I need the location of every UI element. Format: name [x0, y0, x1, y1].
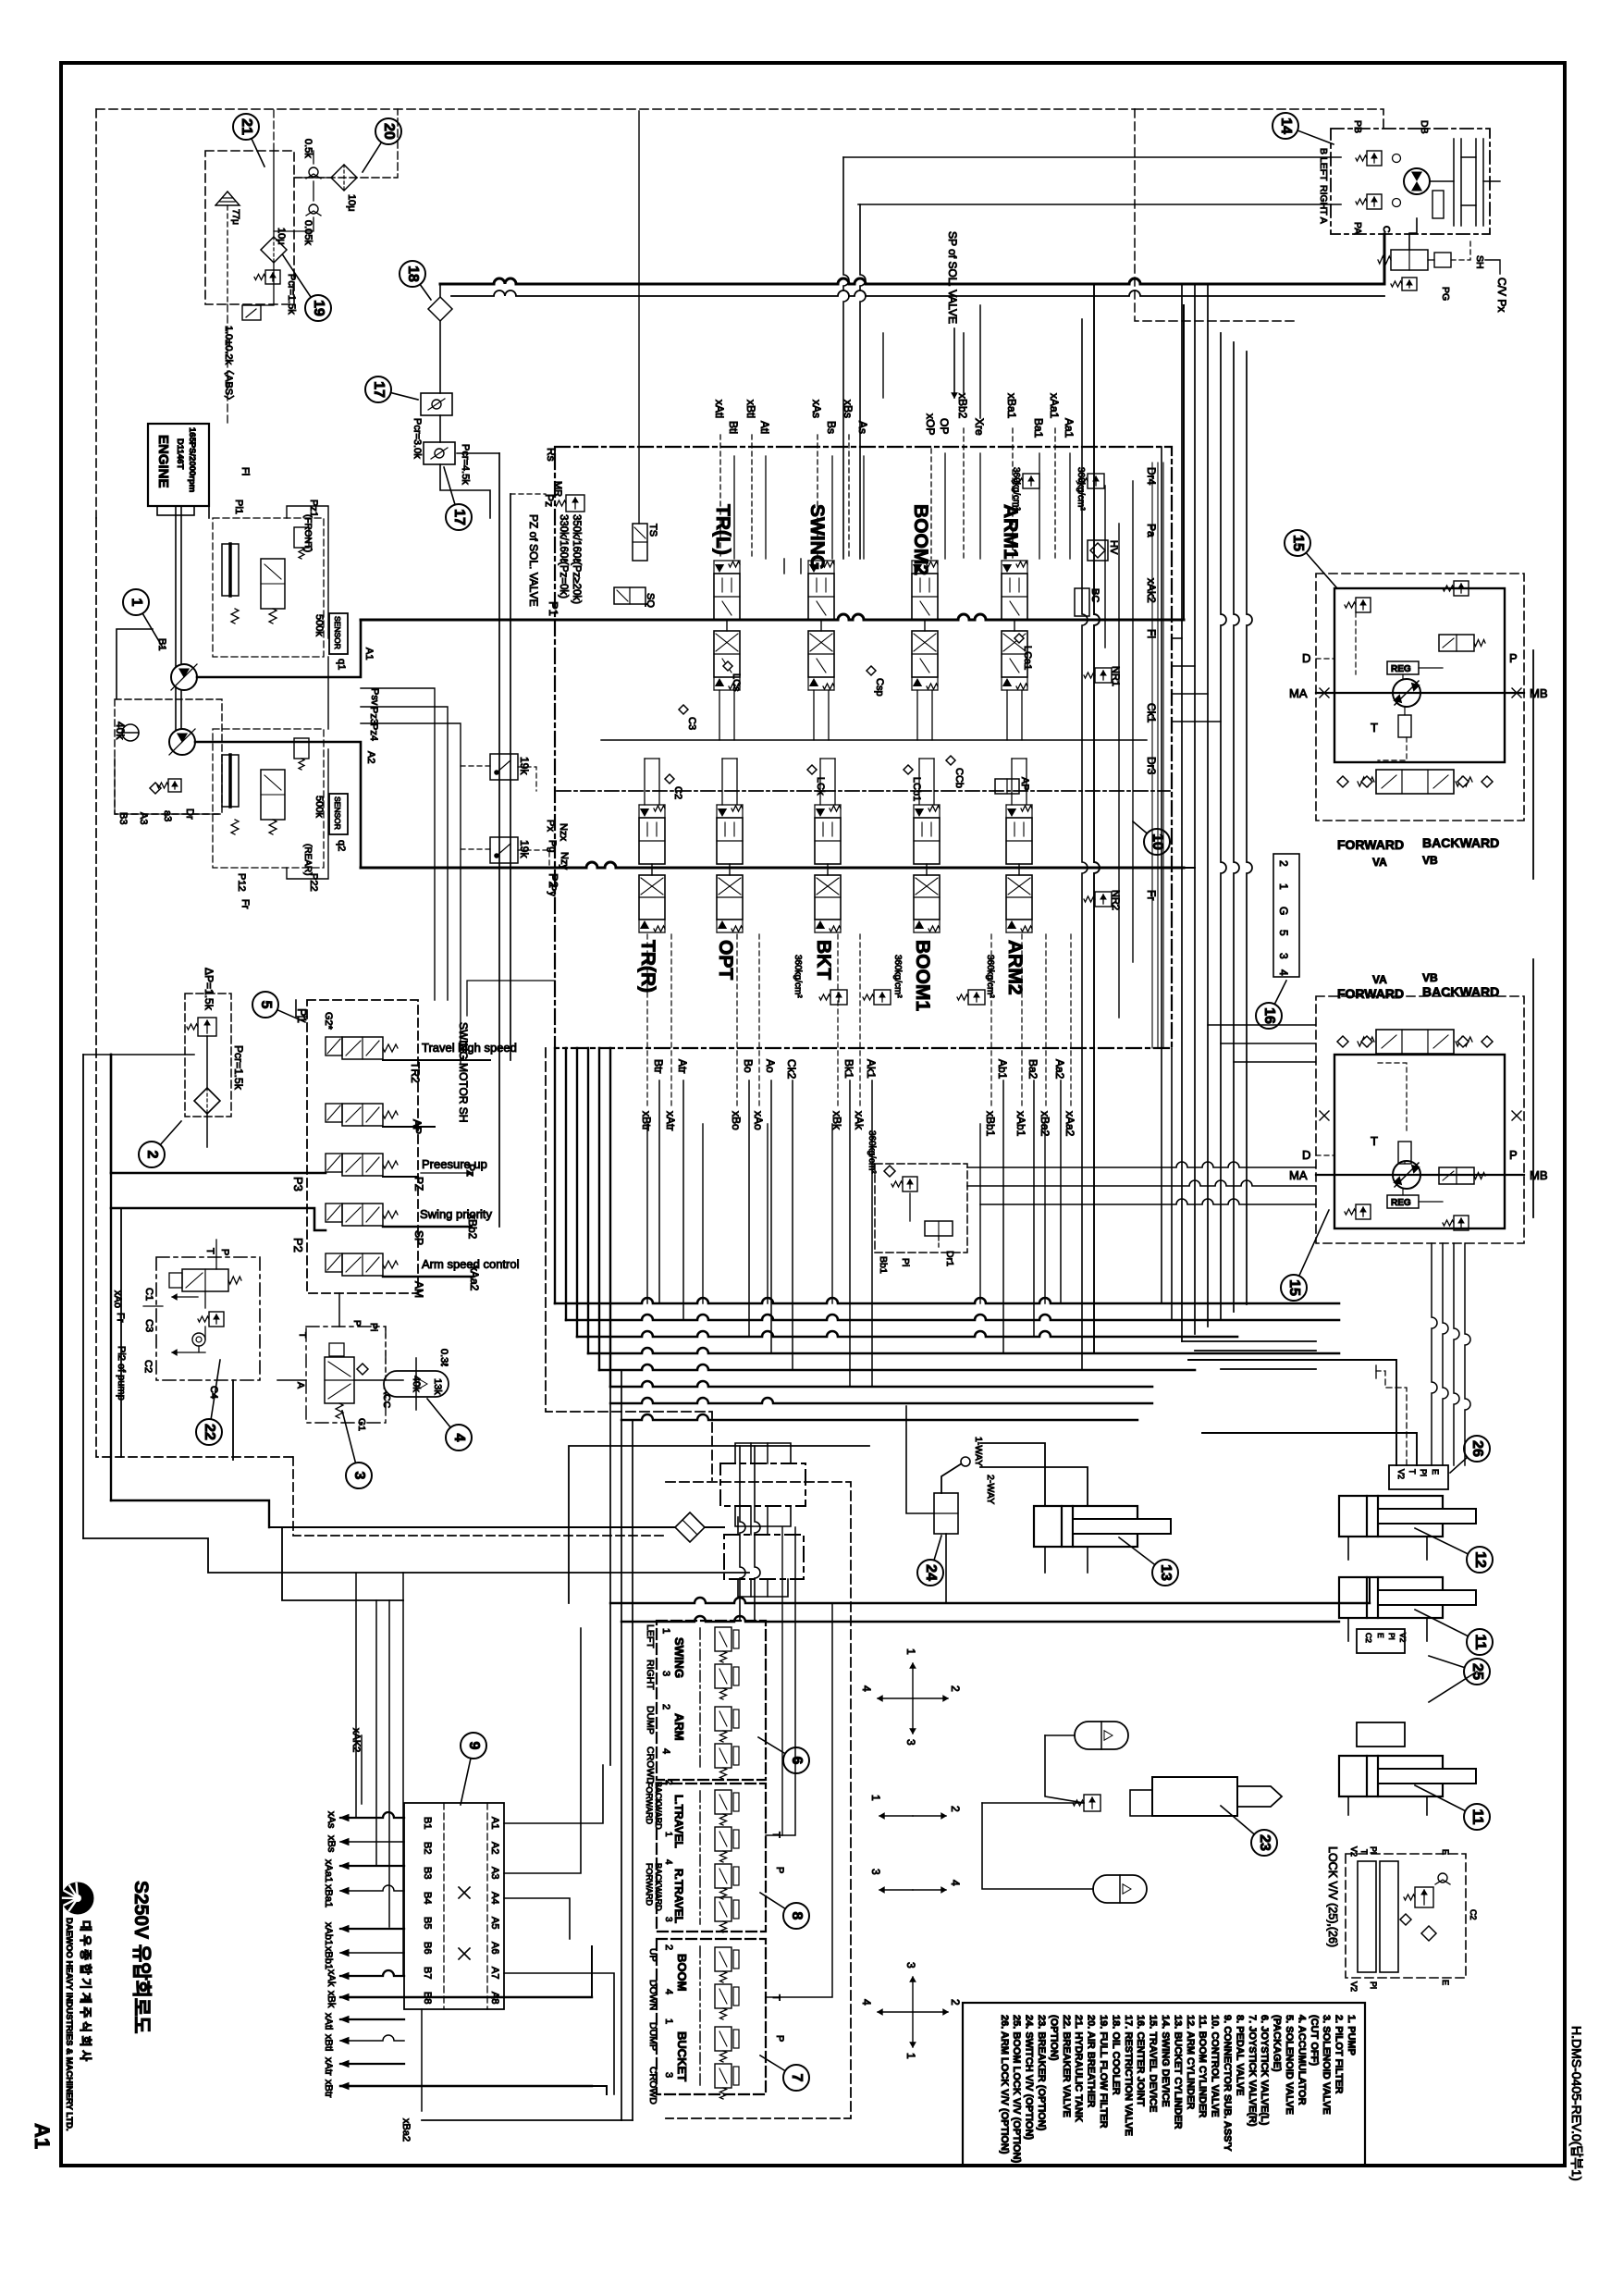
hydraulic tank 21 dashed box	[205, 151, 294, 304]
svg-text:Ak1: Ak1	[865, 1059, 878, 1079]
pilot filter diamond	[194, 1088, 220, 1114]
pressure switch 19k b	[490, 837, 518, 863]
svg-text:21. HYDRAULIC TANK: 21. HYDRAULIC TANK	[1073, 2015, 1084, 2122]
accumulator 4	[384, 1371, 449, 1397]
travel brake line	[1398, 1142, 1411, 1164]
reducing valve element	[715, 1664, 739, 1699]
svg-text:4: 4	[663, 1859, 673, 1865]
svg-text:xAa2: xAa2	[468, 1265, 481, 1291]
svg-text:xOP: xOP	[924, 414, 937, 435]
svg-text:B6: B6	[422, 1942, 433, 1954]
svg-text:360kg/cm²: 360kg/cm²	[892, 955, 903, 998]
svg-text:UP: UP	[647, 1948, 658, 1962]
tank breather symbol	[215, 191, 240, 205]
svg-text:500k: 500k	[314, 796, 325, 818]
svg-text:P: P	[1509, 1148, 1518, 1162]
svg-text:xAtr: xAtr	[323, 2057, 334, 2076]
svg-text:V2: V2	[1398, 1633, 1408, 1643]
svg-text:RIGHT: RIGHT	[645, 1660, 656, 1690]
svg-text:360kg/cm²: 360kg/cm²	[793, 955, 803, 998]
svg-text:360kg/cm²: 360kg/cm²	[985, 955, 995, 998]
valve AP	[995, 779, 1019, 794]
lever 7	[699, 1946, 701, 2087]
travel motor MA/MB x ticks	[1320, 688, 1329, 697]
svg-text:xAa1: xAa1	[1048, 393, 1061, 419]
svg-text:DOWN: DOWN	[647, 1980, 658, 2010]
swing device 14 box	[1331, 129, 1490, 234]
svg-text:MR: MR	[552, 481, 563, 497]
swing relief b	[1367, 194, 1382, 209]
orientation compass	[912, 1663, 914, 1698]
svg-text:E: E	[1441, 1849, 1450, 1855]
wire bundle top horizontals to swing	[843, 157, 849, 559]
svg-text:T: T	[1371, 1134, 1378, 1148]
lock vv internals	[1415, 1887, 1433, 1907]
svg-text:10. CONTROL VALVE: 10. CONTROL VALVE	[1210, 2015, 1221, 2117]
svg-text:C2: C2	[1364, 1633, 1373, 1643]
svg-text:16: 16	[1261, 1007, 1277, 1024]
breaker valve 22 solenoid valve	[182, 1269, 228, 1291]
air breather 20	[331, 165, 357, 191]
svg-text:15: 15	[1290, 535, 1306, 551]
svg-text:11: 11	[1472, 1635, 1488, 1650]
reducing valve element	[715, 1744, 739, 1779]
svg-text:LEFT: LEFT	[645, 1624, 656, 1648]
svg-text:19k: 19k	[518, 840, 531, 858]
boom lock vv 25b	[1357, 1722, 1405, 1747]
svg-text:6. JOYSTICK VALVE(L): 6. JOYSTICK VALVE(L)	[1259, 2015, 1270, 2126]
reducing valve element	[715, 2064, 739, 2099]
svg-text:B1: B1	[422, 1817, 433, 1829]
svg-text:Bo: Bo	[742, 1059, 755, 1073]
svg-text:G: G	[1277, 907, 1290, 915]
pz dashed links to 19k switches	[461, 765, 490, 767]
svg-text:xAs: xAs	[810, 400, 823, 418]
svg-text:Pz4: Pz4	[368, 723, 379, 741]
breaker check	[192, 1333, 205, 1346]
svg-text:(CUT OFF): (CUT OFF)	[1309, 2015, 1320, 2066]
svg-text:1: 1	[904, 1648, 917, 1655]
svg-text:2: 2	[663, 1780, 673, 1785]
pilot pump gauge 40k	[122, 724, 139, 741]
circled 8	[760, 1893, 796, 1916]
center joint pass lines	[750, 1443, 752, 1463]
switch valve 24	[934, 1493, 958, 1534]
cylinder 11a	[1339, 1577, 1476, 1618]
misc connecting lines top-left	[294, 109, 398, 178]
svg-text:CROWD: CROWD	[647, 2067, 658, 2105]
svg-text:MA: MA	[1289, 686, 1308, 700]
svg-text:20: 20	[381, 123, 397, 140]
svg-text:B5: B5	[422, 1917, 433, 1929]
svg-text:Py: Py	[547, 884, 558, 896]
svg-text:REG: REG	[1391, 1198, 1411, 1208]
svg-text:Fr: Fr	[1145, 890, 1158, 900]
bottom relief 360kg boom1	[874, 990, 891, 1005]
right-of-valve internal verticals	[1104, 486, 1106, 648]
compass 2-way a	[879, 1815, 913, 1817]
svg-text:Pz3: Pz3	[368, 707, 379, 724]
svg-text:xBo: xBo	[730, 1111, 743, 1130]
svg-text:Ba2: Ba2	[1027, 1059, 1039, 1080]
xAK2 wire	[361, 1735, 363, 1804]
solenoid block 5 dashed box	[307, 1000, 418, 1293]
svg-text:H.DMS-0405-REV.0(답부1): H.DMS-0405-REV.0(답부1)	[1569, 2026, 1584, 2181]
spool valve BKT	[815, 805, 841, 932]
svg-text:26: 26	[1469, 1440, 1485, 1457]
travel T dashed path	[1378, 737, 1407, 760]
svg-text:Ao: Ao	[764, 1059, 777, 1073]
svg-text:3: 3	[904, 1962, 917, 1969]
svg-text:xBb1: xBb1	[984, 1111, 997, 1137]
svg-text:P22: P22	[308, 873, 319, 892]
svg-text:VB: VB	[1422, 854, 1438, 867]
reducing valve element	[715, 1864, 739, 1899]
svg-text:19. FULL FLOW FILTER: 19. FULL FLOW FILTER	[1098, 2015, 1109, 2128]
svg-text:Ck2: Ck2	[785, 1059, 798, 1080]
svg-text:Ba1: Ba1	[1032, 418, 1045, 438]
check HV	[1088, 540, 1108, 561]
svg-text:FORWARD: FORWARD	[1337, 986, 1404, 1001]
svg-text:CCb: CCb	[953, 768, 965, 788]
svg-text:Atr: Atr	[676, 1059, 689, 1073]
svg-text:P: P	[774, 1867, 785, 1873]
breaker relief	[209, 1312, 224, 1327]
svg-text:C4: C4	[208, 1386, 219, 1399]
spool feed links bottom row	[644, 759, 646, 805]
svg-text:26. ARM LOCK V/V (OPTION): 26. ARM LOCK V/V (OPTION)	[999, 2015, 1010, 2154]
pedal valve 7 boom/bucket	[657, 1939, 766, 2094]
control valve 10 boundary	[555, 447, 1172, 1048]
pressure switch 19k a	[490, 754, 518, 780]
valve bottom port drops	[658, 1080, 660, 1303]
svg-text:Pi1: Pi1	[233, 500, 244, 514]
joystick valve 6 swing/arm	[657, 1621, 766, 1780]
svg-text:VA: VA	[1372, 856, 1387, 869]
spool drop links top row	[719, 690, 720, 740]
svg-text:ARM: ARM	[672, 1713, 686, 1741]
wire bundle right of valve vertical	[1181, 284, 1183, 1341]
riser bundle to travel devices	[1182, 1340, 1316, 1342]
svg-text:P: P	[1509, 651, 1518, 665]
svg-text:D: D	[1302, 651, 1310, 665]
lock vv block 25/26	[1346, 1854, 1466, 1978]
travel MA MB line	[1316, 692, 1524, 694]
swing gearbox	[1430, 139, 1500, 226]
svg-text:A3: A3	[489, 1867, 500, 1879]
svg-text:xAb1: xAb1	[1014, 1111, 1027, 1137]
lines valve to right bundle	[1172, 637, 1182, 639]
travel counterbalance	[1376, 770, 1454, 794]
wire P1 supply line	[361, 614, 1184, 620]
svg-text:Fr: Fr	[240, 899, 251, 909]
svg-text:1-WAY: 1-WAY	[973, 1437, 984, 1466]
svg-text:xAa1: xAa1	[323, 1859, 334, 1882]
travel 2sol valve	[1439, 1167, 1474, 1184]
solenoid valve section	[326, 1037, 398, 1059]
svg-text:MA: MA	[1289, 1168, 1308, 1182]
svg-text:CROWD: CROWD	[645, 1747, 656, 1784]
svg-text:SP of SOL. VALVE: SP of SOL. VALVE	[946, 231, 959, 324]
svg-text:ENGINE: ENGINE	[155, 435, 171, 488]
svg-text:SWING MOTOR SH: SWING MOTOR SH	[457, 1022, 470, 1122]
connector A-side out wires	[504, 1765, 603, 1823]
solenoid valve section	[326, 1104, 398, 1126]
check 0.05k	[309, 204, 318, 214]
svg-text:15. TRAVEL DEVICE: 15. TRAVEL DEVICE	[1148, 2015, 1159, 2112]
valve internal tank rail	[601, 739, 1147, 741]
svg-text:B2: B2	[422, 1842, 433, 1854]
svg-text:4: 4	[660, 1748, 671, 1754]
connector cross links	[459, 1887, 470, 1898]
svg-text:E: E	[1376, 1633, 1385, 1638]
left area long lines	[82, 1055, 84, 1538]
svg-text:xBk: xBk	[326, 1991, 337, 2008]
svg-text:4: 4	[1277, 969, 1290, 976]
solenoid valve section	[326, 1253, 398, 1276]
reducing valve element	[715, 1827, 739, 1862]
lever 6	[699, 1628, 701, 1767]
bottom relief 360kg bkt	[830, 990, 847, 1005]
svg-text:xBa2: xBa2	[400, 2118, 412, 2142]
svg-text:Pi: Pi	[1369, 1981, 1378, 1989]
circled 5	[265, 1005, 305, 1022]
svg-text:E: E	[1431, 1469, 1440, 1475]
svg-text:As: As	[856, 421, 869, 434]
svg-text:xAk: xAk	[326, 1969, 337, 1987]
spool valve TR(R)	[639, 805, 665, 932]
svg-text:HV: HV	[1108, 540, 1119, 555]
svg-text:A6: A6	[489, 1942, 500, 1954]
svg-text:2-WAY: 2-WAY	[985, 1475, 996, 1504]
circled 16	[1269, 981, 1286, 1016]
svg-text:C3: C3	[686, 717, 697, 730]
svg-text:Pi: Pi	[1387, 1633, 1396, 1640]
svg-text:19: 19	[311, 300, 326, 316]
swing lines	[843, 156, 1341, 158]
spool valve ARM1	[1002, 561, 1027, 690]
svg-text:7: 7	[789, 2074, 805, 2082]
svg-text:V2: V2	[1349, 1981, 1359, 1992]
spool valve TR(L)	[714, 561, 740, 690]
svg-text:10μ: 10μ	[276, 228, 287, 245]
svg-text:Pcr=1.5k: Pcr=1.5k	[286, 274, 297, 315]
svg-text:PB: PB	[1352, 120, 1363, 133]
svg-text:Btr: Btr	[652, 1059, 665, 1073]
svg-text:360kg/cm²: 360kg/cm²	[867, 1130, 877, 1174]
svg-text:12: 12	[1472, 1551, 1488, 1568]
switch vv 26	[1389, 1465, 1448, 1489]
svg-text:Bk1: Bk1	[842, 1059, 855, 1079]
svg-text:22. BREAKER VALVE: 22. BREAKER VALVE	[1061, 2015, 1072, 2117]
joystick supply riser	[781, 1527, 783, 1835]
svg-text:a3: a3	[162, 810, 173, 821]
cylinder 12	[1339, 1496, 1476, 1537]
svg-text:xBb2: xBb2	[956, 393, 969, 419]
svg-text:9: 9	[466, 1742, 482, 1750]
svg-text:Pi: Pi	[1369, 1846, 1378, 1854]
swing relief pg	[1402, 278, 1417, 290]
svg-text:Pcr=4.5k: Pcr=4.5k	[460, 444, 471, 485]
svg-text:SH: SH	[1474, 255, 1485, 269]
svg-text:xBb1: xBb1	[323, 1946, 334, 1969]
svg-text:350k/160ℓ(Pz≥20k): 350k/160ℓ(Pz≥20k)	[571, 514, 582, 604]
dashed boundary around joystick pilot area	[666, 1482, 851, 2118]
svg-text:ΔP=1.5k: ΔP=1.5k	[203, 968, 215, 1011]
svg-text:14. SWING DEVICE: 14. SWING DEVICE	[1160, 2015, 1171, 2107]
svg-text:Pcr=3.0k: Pcr=3.0k	[412, 418, 423, 459]
svg-text:DUMP: DUMP	[647, 2022, 658, 2051]
svg-text:12. ARM CYLINDER: 12. ARM CYLINDER	[1185, 2015, 1196, 2109]
center joint upper	[720, 1463, 805, 1506]
svg-text:PA: PA	[1352, 222, 1363, 234]
fan wire arrowheads	[340, 1815, 349, 1821]
joystick P/T feed lines	[766, 1527, 795, 1835]
solenoid valve section	[326, 1154, 398, 1176]
branch to fan verticals	[282, 1527, 403, 1600]
bottom bundle from valve to cylinders	[555, 1298, 1339, 1303]
svg-text:24. SWITCH V/V (OPTION): 24. SWITCH V/V (OPTION)	[1024, 2015, 1035, 2140]
svg-text:C2: C2	[1469, 1909, 1478, 1920]
parts list box	[963, 2003, 1365, 2166]
compass 2-way b	[879, 1889, 913, 1891]
svg-text:1. PUMP: 1. PUMP	[1346, 2015, 1357, 2055]
svg-text:C2: C2	[142, 1360, 154, 1373]
svg-text:3. SOLENOID VALVE: 3. SOLENOID VALVE	[1321, 2015, 1332, 2115]
svg-text:C2: C2	[672, 786, 683, 799]
cutoff valve body	[325, 1357, 354, 1403]
svg-text:Pg: Pg	[547, 840, 558, 852]
svg-text:B1: B1	[156, 638, 167, 650]
svg-text:10μ: 10μ	[346, 194, 357, 212]
svg-text:Psv: Psv	[369, 688, 380, 706]
wire top xBb2 vertical	[963, 333, 965, 393]
svg-text:BACKWARD: BACKWARD	[654, 1863, 663, 1911]
svg-text:FORWARD: FORWARD	[645, 1782, 654, 1824]
valve NR2	[1095, 892, 1112, 907]
joystick center line group 8	[699, 1791, 701, 1924]
TS feed vertical	[638, 111, 640, 524]
travel counterbalance	[1376, 1030, 1454, 1054]
svg-text:0.3ℓ: 0.3ℓ	[438, 1349, 449, 1366]
svg-text:9. CONNECTOR SUB. ASS'Y: 9. CONNECTOR SUB. ASS'Y	[1222, 2015, 1233, 2152]
restriction valve 17 Pcr=3.0k	[421, 393, 452, 415]
Bb1 Pi Dr1 group	[875, 1164, 967, 1253]
svg-text:Pz1: Pz1	[308, 500, 319, 517]
svg-text:20. AIR BREATHER: 20. AIR BREATHER	[1086, 2015, 1097, 2107]
restriction valve 18 oil cooler	[428, 297, 452, 321]
P2 to left system	[110, 1055, 112, 1173]
svg-text:23: 23	[1257, 1834, 1273, 1851]
svg-text:4: 4	[663, 1989, 674, 1994]
svg-text:13: 13	[1158, 1564, 1174, 1581]
svg-text:8. PEDAL VALVE: 8. PEDAL VALVE	[1234, 2015, 1245, 2095]
svg-text:Rs: Rs	[545, 448, 558, 462]
REG box	[1387, 661, 1419, 674]
svg-text:xAk: xAk	[853, 1111, 866, 1130]
svg-text:4: 4	[860, 1685, 873, 1692]
pump outline lines	[197, 620, 361, 677]
svg-text:xBs: xBs	[326, 1835, 337, 1853]
svg-text:AP: AP	[1019, 777, 1030, 791]
svg-text:165PS/2000rpm: 165PS/2000rpm	[187, 427, 197, 492]
svg-text:AM: AM	[412, 1281, 425, 1298]
travel device 15 box	[1316, 996, 1524, 1243]
svg-text:5: 5	[258, 1001, 274, 1009]
svg-text:1: 1	[1277, 883, 1290, 890]
pilot manifold solid box	[569, 1446, 869, 1603]
svg-text:SP: SP	[412, 1230, 425, 1245]
svg-text:VB: VB	[1422, 971, 1438, 984]
circled 3	[342, 1411, 359, 1475]
svg-text:B3: B3	[422, 1867, 433, 1879]
svg-text:A5: A5	[489, 1917, 500, 1929]
svg-text:Swing priority: Swing priority	[420, 1207, 493, 1221]
travel MA MB line	[1316, 1174, 1524, 1176]
pilot filter 2 dashed box	[185, 994, 231, 1117]
svg-text:DB: DB	[1419, 120, 1430, 134]
svg-text:5. SOLENOID VALVE: 5. SOLENOID VALVE	[1284, 2015, 1295, 2115]
circled 1	[136, 602, 163, 648]
svg-text:DUMP: DUMP	[645, 1706, 656, 1734]
travel D dashed line	[1316, 1154, 1334, 1156]
svg-text:P: P	[351, 1320, 363, 1327]
circled 20	[363, 131, 388, 172]
svg-text:1: 1	[869, 1795, 882, 1801]
svg-text:Bs: Bs	[825, 421, 838, 434]
pump regulator rear	[213, 729, 324, 868]
spool valve BOOM1	[914, 805, 940, 932]
svg-text:P12: P12	[236, 873, 247, 892]
svg-text:TS: TS	[647, 524, 658, 537]
pump drain small valves	[150, 783, 161, 794]
svg-text:13. BUCKET CYLINDER: 13. BUCKET CYLINDER	[1172, 2015, 1183, 2129]
wire heavy from P1 to right bundle	[1183, 305, 1185, 620]
sensor rear	[329, 794, 348, 834]
svg-text:A1: A1	[363, 648, 375, 660]
svg-text:MB: MB	[1530, 686, 1548, 700]
pedal valve 8 travel	[657, 1784, 766, 1932]
valve NR1	[1095, 668, 1112, 683]
svg-text:Dr4: Dr4	[1145, 467, 1158, 486]
svg-text:3: 3	[351, 1472, 367, 1480]
svg-text:PZ: PZ	[412, 1177, 425, 1191]
svg-text:13k: 13k	[432, 1378, 443, 1395]
cooler line	[439, 284, 441, 297]
travel P side line	[1532, 650, 1534, 879]
svg-text:Fl: Fl	[1145, 629, 1158, 638]
svg-text:PG: PG	[1440, 287, 1451, 301]
svg-text:1: 1	[129, 599, 144, 607]
svg-text:B4: B4	[422, 1892, 433, 1904]
svg-text:Bb1: Bb1	[878, 1256, 889, 1274]
svg-text:C1: C1	[143, 1288, 154, 1301]
long pilot verticals left of valve	[498, 453, 500, 1227]
svg-text:L.TRAVEL: L.TRAVEL	[672, 1795, 685, 1848]
swing brake valve	[1432, 191, 1444, 218]
valve right dashed edge	[1135, 109, 1295, 321]
svg-text:(OPTION): (OPTION)	[1048, 2015, 1059, 2061]
svg-text:2: 2	[1277, 860, 1290, 867]
svg-text:OP: OP	[938, 418, 951, 434]
svg-text:24: 24	[923, 1564, 939, 1581]
spool valve ARM2	[1006, 805, 1032, 932]
svg-text:Pcr=1.5k: Pcr=1.5k	[232, 1045, 245, 1091]
breaker lines	[1045, 1734, 1075, 1736]
svg-text:BC: BC	[1089, 588, 1100, 602]
svg-text:q1: q1	[336, 659, 347, 670]
svg-text:Nzx: Nzx	[558, 823, 569, 841]
